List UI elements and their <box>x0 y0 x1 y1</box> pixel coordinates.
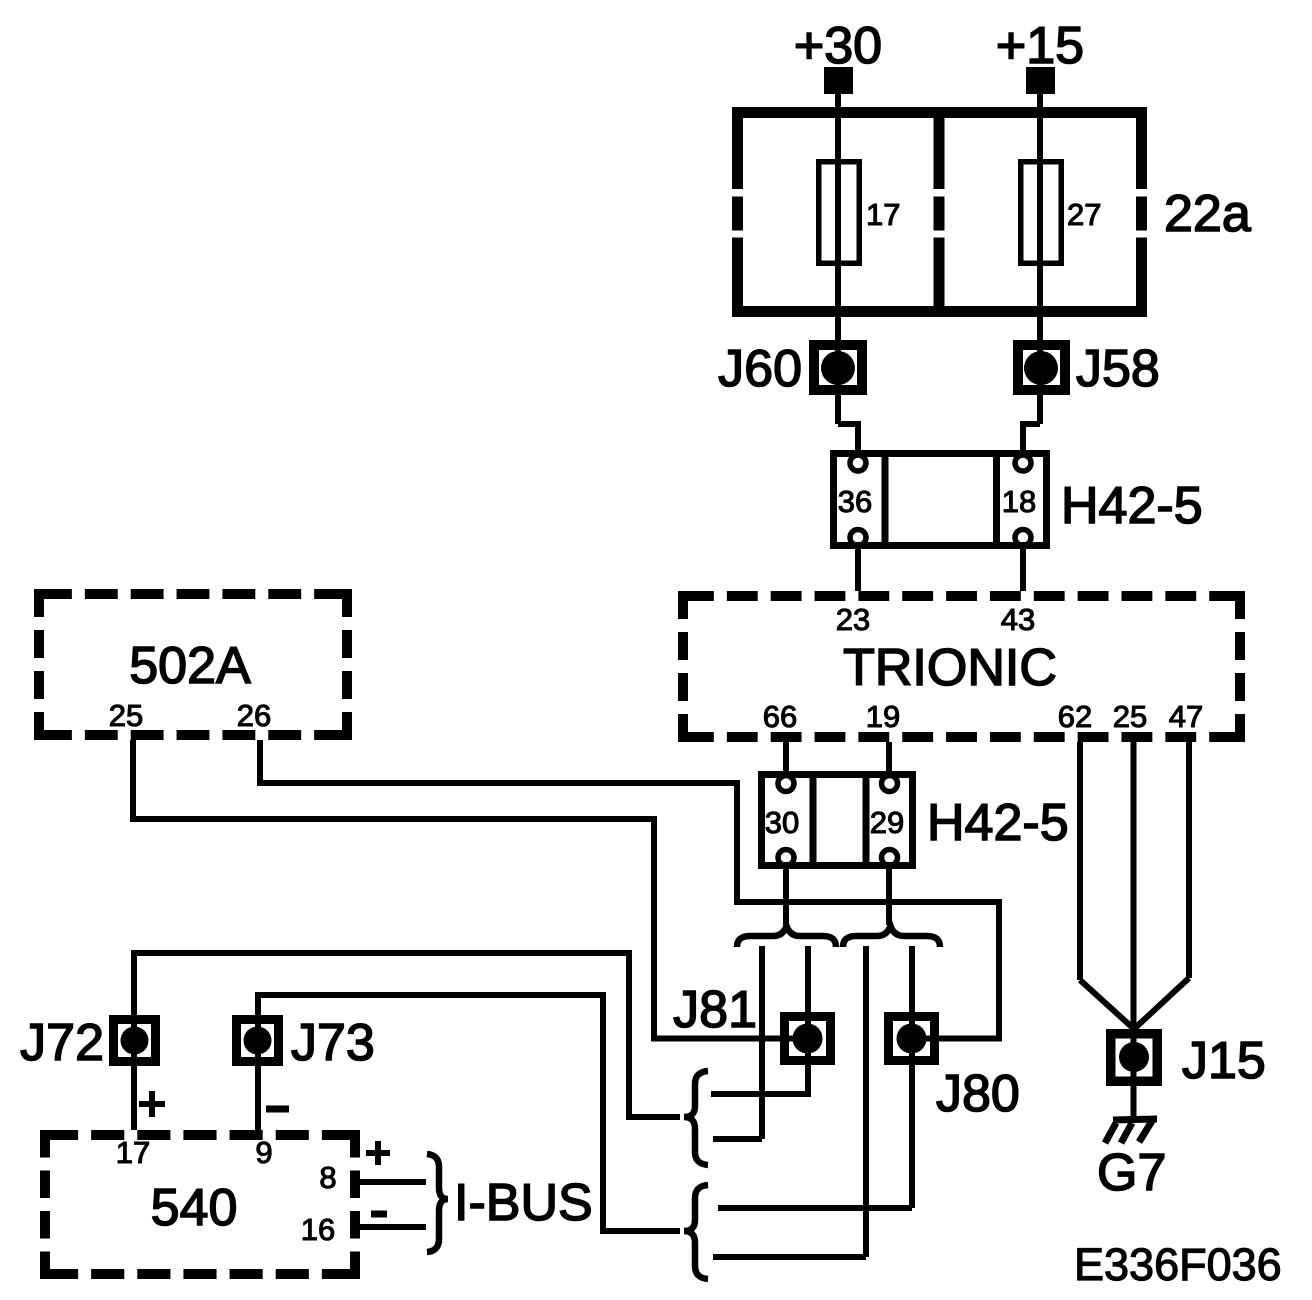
svg-text:26: 26 <box>237 698 271 733</box>
svg-text:66: 66 <box>763 699 797 734</box>
svg-text:25: 25 <box>109 698 143 733</box>
svg-text:27: 27 <box>1067 197 1101 232</box>
svg-text:62: 62 <box>1058 699 1092 734</box>
svg-text:J73: J73 <box>291 1014 375 1072</box>
svg-text:30: 30 <box>765 805 799 840</box>
svg-text:9: 9 <box>255 1135 272 1170</box>
svg-text:18: 18 <box>1002 484 1036 519</box>
svg-text:36: 36 <box>838 484 872 519</box>
svg-text:TRIONIC: TRIONIC <box>843 639 1057 697</box>
svg-text:G7: G7 <box>1097 1144 1166 1202</box>
svg-text:J81: J81 <box>673 981 757 1039</box>
svg-text:16: 16 <box>301 1212 335 1247</box>
svg-text:H42-5: H42-5 <box>1061 477 1203 535</box>
svg-text:J60: J60 <box>718 340 802 398</box>
svg-text:+15: +15 <box>996 17 1084 75</box>
svg-text:E336F036: E336F036 <box>1074 1239 1282 1290</box>
svg-text:502A: 502A <box>129 637 251 695</box>
svg-text:J15: J15 <box>1182 1032 1266 1090</box>
svg-text:22a: 22a <box>1164 185 1251 243</box>
svg-text:J80: J80 <box>936 1065 1020 1123</box>
svg-text:+30: +30 <box>794 17 882 75</box>
svg-text:19: 19 <box>866 699 900 734</box>
svg-text:8: 8 <box>319 1160 336 1195</box>
svg-text:J72: J72 <box>20 1014 104 1072</box>
svg-text:17: 17 <box>116 1135 150 1170</box>
svg-text:43: 43 <box>1001 602 1035 637</box>
svg-text:29: 29 <box>870 805 904 840</box>
svg-text:H42-5: H42-5 <box>927 794 1069 852</box>
svg-text:I-BUS: I-BUS <box>454 1174 593 1232</box>
svg-text:17: 17 <box>866 197 900 232</box>
svg-text:25: 25 <box>1113 699 1147 734</box>
svg-text:23: 23 <box>836 602 870 637</box>
svg-text:J58: J58 <box>1076 340 1160 398</box>
svg-text:540: 540 <box>151 1179 238 1237</box>
svg-text:47: 47 <box>1169 699 1203 734</box>
